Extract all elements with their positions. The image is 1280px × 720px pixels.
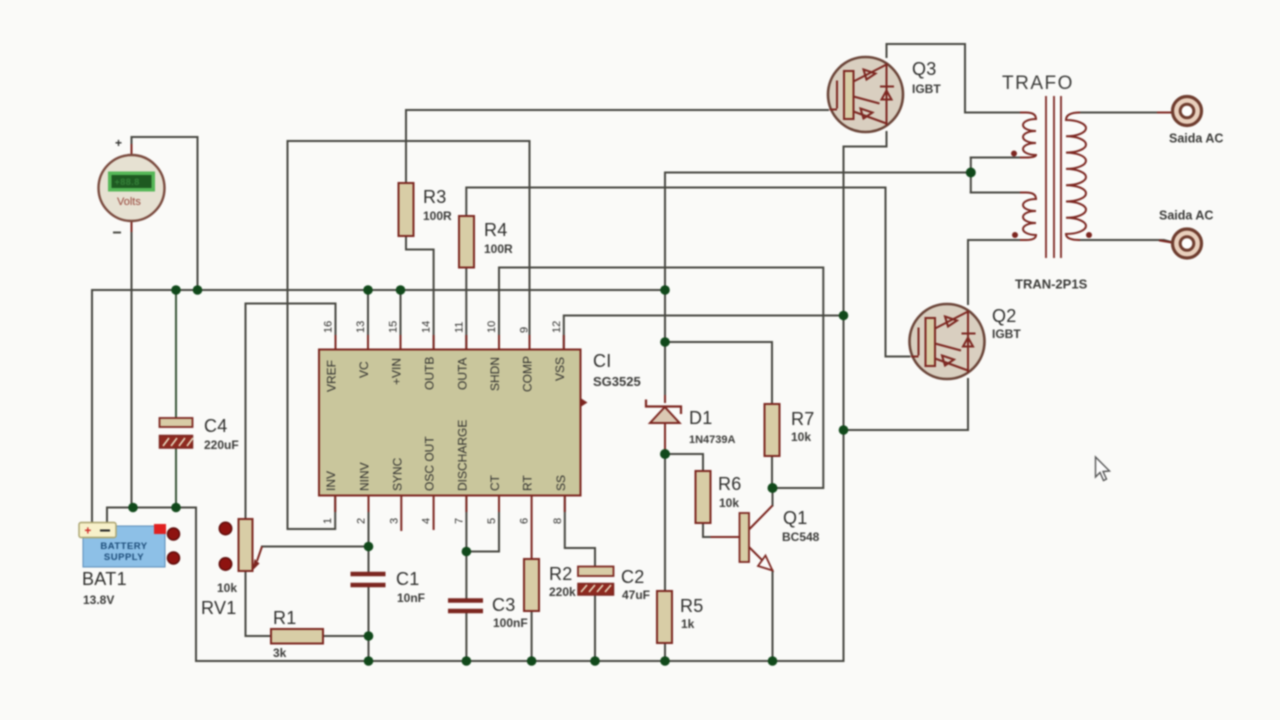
svg-text:1N4739A: 1N4739A — [689, 434, 736, 446]
svg-text:2: 2 — [356, 518, 368, 524]
svg-text:10k: 10k — [791, 430, 811, 444]
svg-text:Saida AC: Saida AC — [1159, 209, 1213, 223]
svg-text:VC: VC — [357, 361, 371, 378]
svg-text:R4: R4 — [484, 220, 508, 240]
svg-text:100R: 100R — [484, 242, 513, 256]
svg-text:220k: 220k — [549, 585, 576, 599]
svg-text:Volts: Volts — [117, 196, 141, 208]
svg-text:BAT1: BAT1 — [82, 569, 127, 589]
svg-text:+: + — [115, 136, 122, 150]
svg-text:SHDN: SHDN — [488, 357, 502, 391]
svg-text:IGBT: IGBT — [912, 82, 941, 96]
svg-text:100nF: 100nF — [493, 616, 528, 630]
svg-text:13.8V: 13.8V — [83, 593, 114, 607]
svg-text:3: 3 — [388, 518, 400, 524]
svg-text:R1: R1 — [273, 608, 297, 628]
svg-text:8: 8 — [552, 518, 564, 524]
svg-text:+VIN: +VIN — [390, 358, 404, 385]
svg-text:R2: R2 — [549, 564, 573, 584]
svg-text:OUTB: OUTB — [423, 357, 437, 390]
svg-text:Q1: Q1 — [783, 508, 808, 528]
svg-text:C1: C1 — [396, 569, 420, 589]
svg-text:R6: R6 — [718, 474, 742, 494]
svg-text:SG3525: SG3525 — [593, 374, 641, 389]
svg-text:D1: D1 — [689, 408, 713, 428]
svg-text:SS: SS — [554, 475, 568, 491]
svg-text:Q2: Q2 — [992, 306, 1017, 326]
svg-text:Saida AC: Saida AC — [1169, 132, 1223, 146]
svg-text:DISCHARGE: DISCHARGE — [455, 420, 469, 491]
svg-text:4: 4 — [421, 518, 433, 524]
svg-text:INV: INV — [324, 471, 338, 491]
svg-text:12: 12 — [551, 321, 563, 333]
svg-text:RV1: RV1 — [201, 598, 237, 618]
svg-text:+88.8: +88.8 — [115, 177, 140, 187]
svg-text:VREF: VREF — [325, 360, 339, 392]
svg-text:+: + — [85, 526, 92, 538]
svg-text:14: 14 — [421, 321, 433, 333]
svg-text:1: 1 — [322, 518, 334, 524]
svg-text:7: 7 — [453, 518, 465, 524]
svg-text:SYNC: SYNC — [390, 457, 404, 491]
svg-text:1k: 1k — [681, 617, 695, 631]
svg-text:R3: R3 — [423, 187, 447, 207]
svg-text:15: 15 — [388, 321, 400, 333]
svg-text:C2: C2 — [621, 567, 645, 587]
svg-text:VSS: VSS — [553, 357, 567, 381]
svg-text:IGBT: IGBT — [992, 327, 1021, 341]
svg-text:220uF: 220uF — [204, 438, 239, 452]
svg-text:RT: RT — [521, 475, 535, 491]
svg-text:COMP: COMP — [521, 356, 535, 392]
svg-text:10k: 10k — [217, 581, 237, 595]
svg-text:OUTA: OUTA — [455, 358, 469, 390]
svg-text:C4: C4 — [204, 416, 228, 436]
svg-text:R7: R7 — [791, 409, 815, 429]
svg-text:6: 6 — [519, 518, 531, 524]
svg-text:CI: CI — [593, 351, 612, 371]
svg-text:R5: R5 — [680, 596, 704, 616]
svg-text:BC548: BC548 — [782, 530, 820, 544]
svg-text:10nF: 10nF — [397, 591, 425, 605]
svg-text:10: 10 — [486, 321, 498, 333]
svg-text:CT: CT — [488, 474, 502, 491]
svg-text:13: 13 — [355, 321, 367, 333]
svg-text:OSC OUT: OSC OUT — [423, 436, 437, 491]
svg-text:5: 5 — [486, 518, 498, 524]
svg-text:C3: C3 — [492, 595, 516, 615]
svg-text:11: 11 — [453, 322, 465, 333]
svg-text:10k: 10k — [719, 496, 739, 510]
svg-text:NINV: NINV — [358, 462, 372, 491]
svg-text:47uF: 47uF — [622, 588, 650, 602]
svg-text:9: 9 — [519, 327, 531, 333]
svg-text:SUPPLY: SUPPLY — [104, 552, 144, 563]
svg-text:3k: 3k — [273, 646, 287, 660]
svg-text:16: 16 — [323, 321, 335, 333]
svg-text:TRAFO: TRAFO — [1002, 73, 1074, 94]
svg-text:BATTERY: BATTERY — [100, 541, 147, 552]
svg-text:TRAN-2P1S: TRAN-2P1S — [1015, 277, 1088, 292]
svg-text:Q3: Q3 — [912, 59, 937, 79]
svg-text:100R: 100R — [423, 209, 452, 223]
